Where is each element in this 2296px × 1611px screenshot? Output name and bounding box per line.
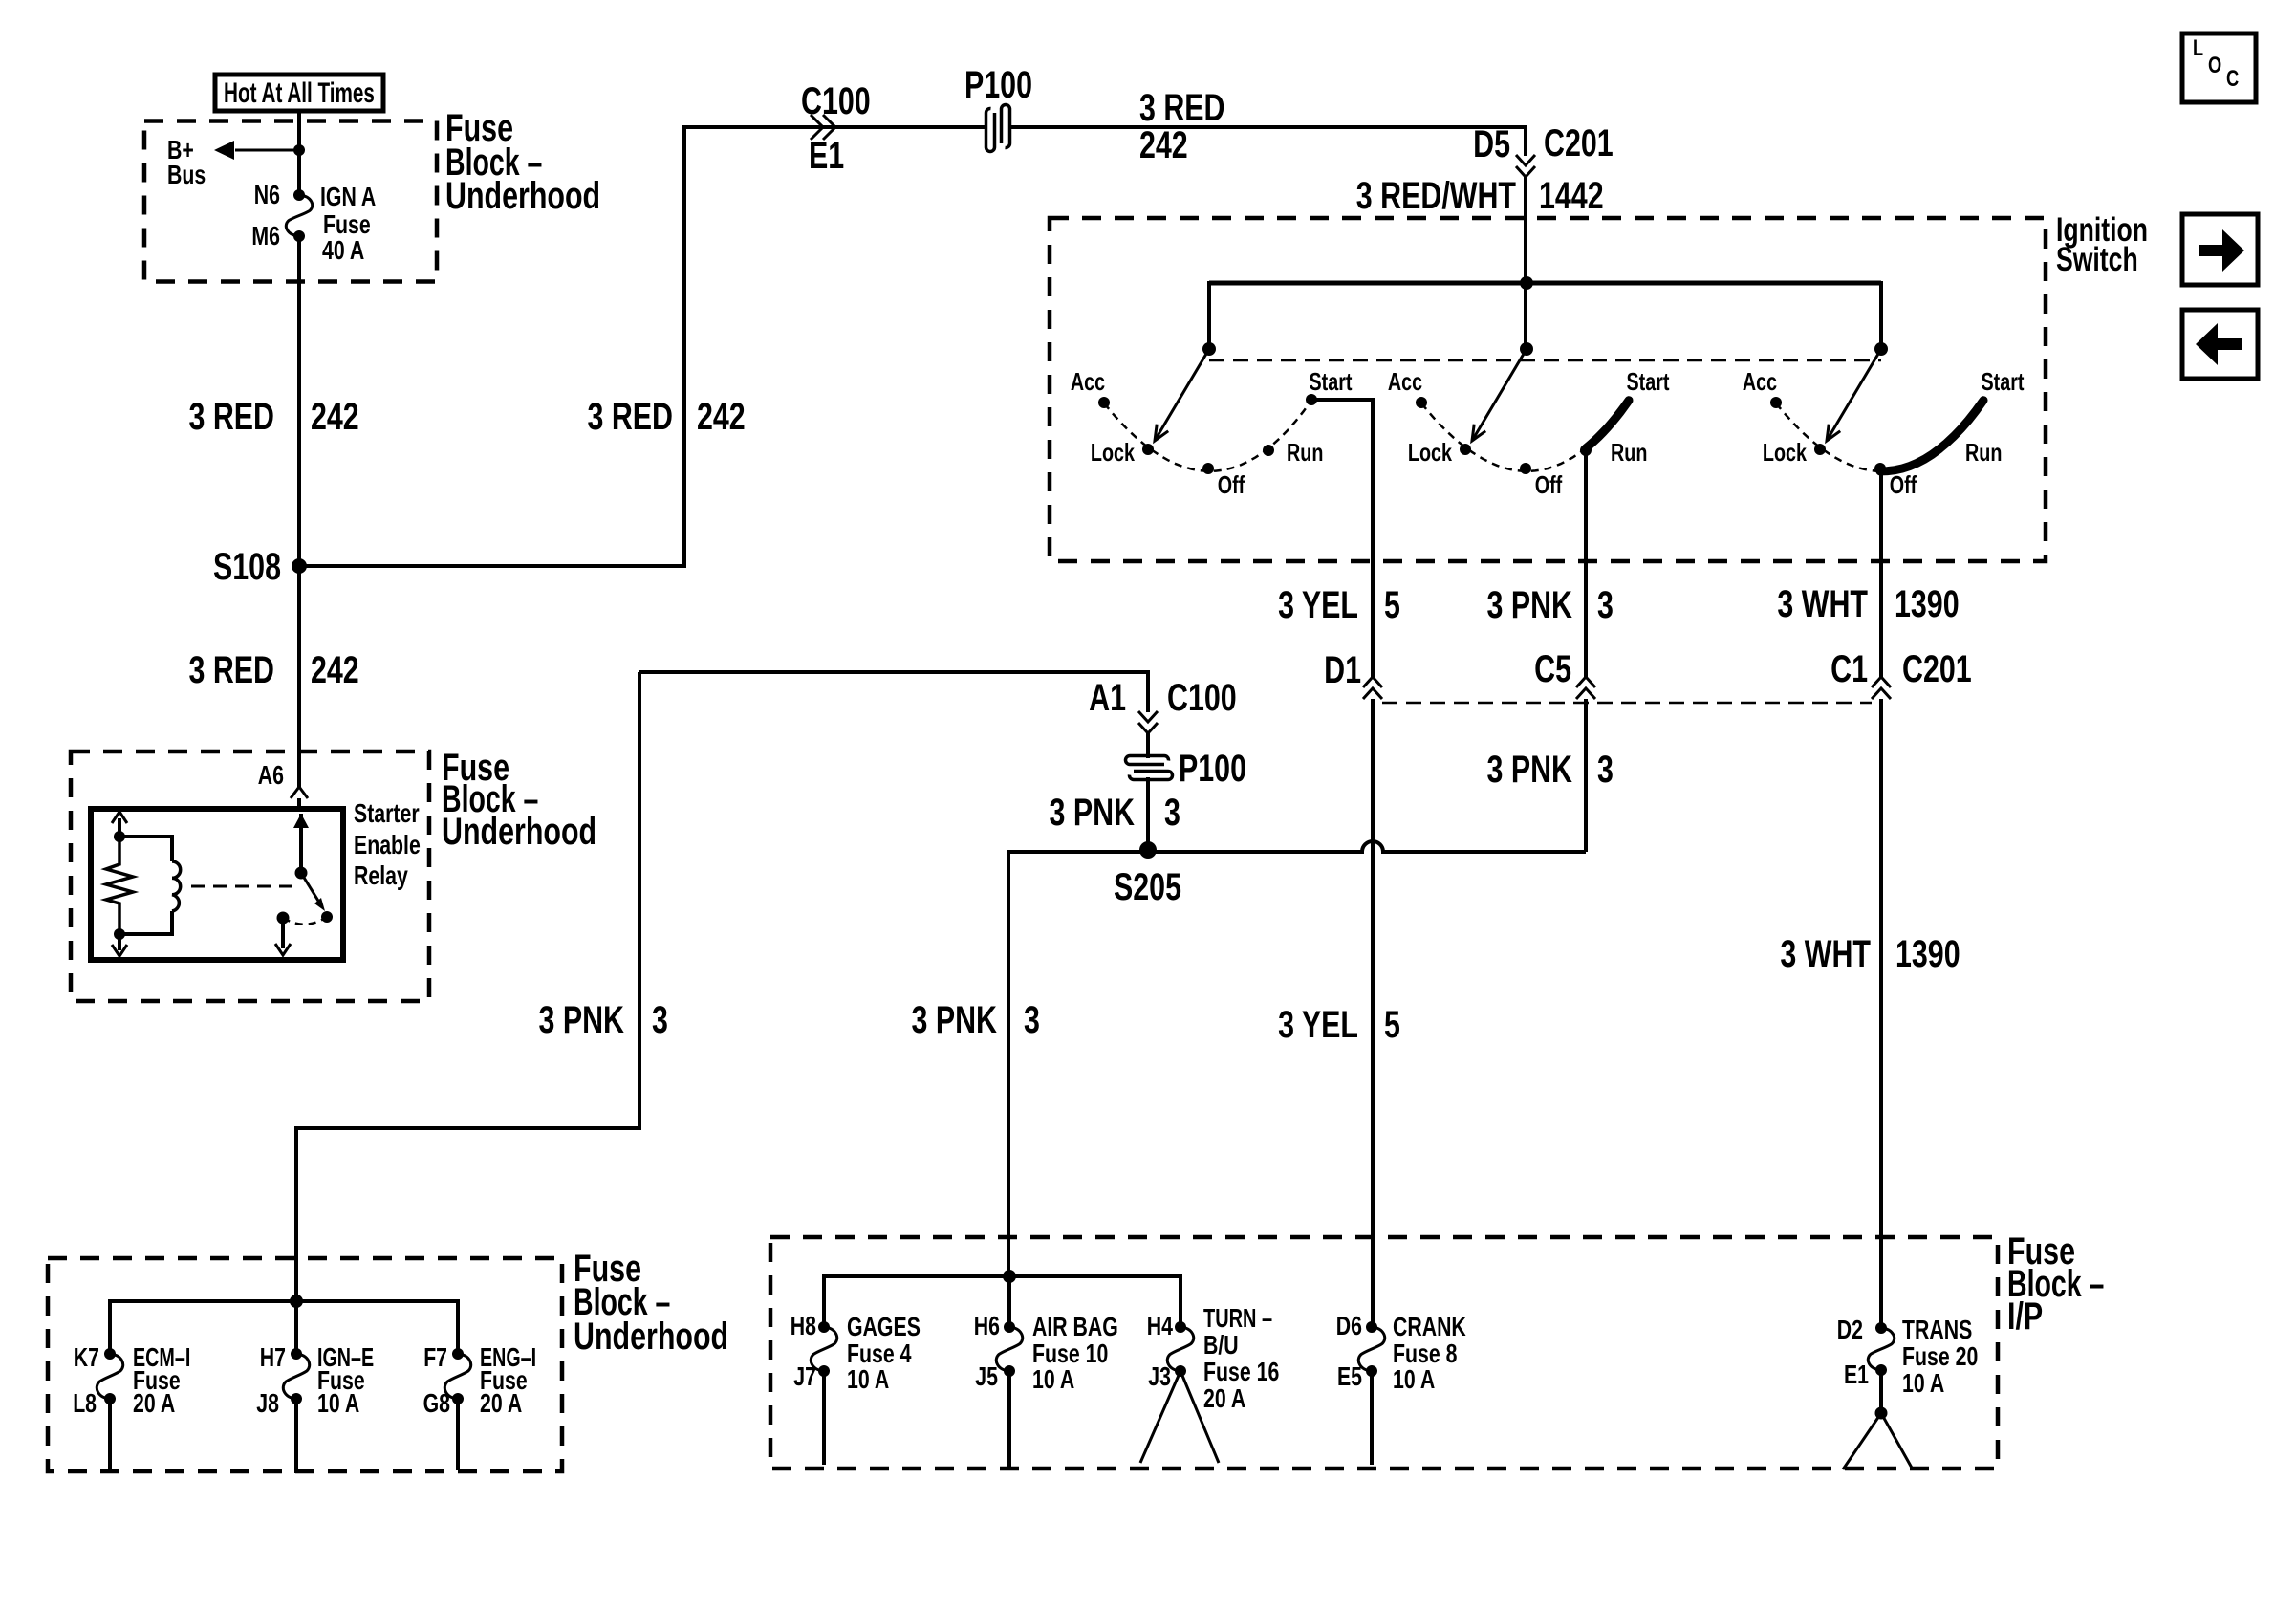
svg-text:H4: H4: [1147, 1311, 1174, 1340]
ignition switch section 1 (wiper): [1098, 342, 1317, 474]
pin D2 label: [1837, 1315, 1863, 1344]
fuse IGN A value label: [320, 182, 376, 265]
svg-text:3 WHT: 3 WHT: [1777, 583, 1868, 625]
pin G8 label: [423, 1388, 450, 1418]
wire 3 YEL 5 (to D1): [1371, 561, 1375, 677]
svg-text:3 PNK: 3 PNK: [1487, 584, 1573, 626]
svg-text:Start: Start: [1310, 367, 1353, 396]
connector C1 C201: [1830, 648, 1972, 699]
wire label 3 PNK 3 (left branch): [912, 999, 1040, 1041]
svg-text:1390: 1390: [1895, 583, 1960, 625]
svg-text:H7: H7: [260, 1342, 286, 1372]
svg-text:M6: M6: [251, 221, 280, 250]
svg-text:Start: Start: [1982, 367, 2025, 396]
wire section1 Start to D1 drop: [1311, 400, 1373, 561]
connector D1: [1324, 649, 1382, 699]
fuse block I/P dashed box: [770, 1237, 1998, 1469]
wire label 3 YEL 5 (lower): [1278, 1004, 1400, 1046]
svg-text:Start: Start: [1627, 367, 1670, 396]
svg-text:S108: S108: [213, 546, 281, 588]
pin L8 label: [73, 1388, 97, 1418]
svg-text:Enable: Enable: [354, 830, 421, 860]
fuse ENG-I value label: [480, 1342, 536, 1418]
relay output arrow: [275, 918, 291, 955]
svg-text:10 A: 10 A: [1032, 1364, 1074, 1394]
pin A6 connector: [258, 760, 308, 798]
relay coil-switch dashed link: [191, 885, 292, 888]
ignition switch section 2 (wiper): [1416, 342, 1629, 474]
fuse block underhood (relay) dashed box: [71, 751, 429, 1001]
svg-text:CRANK: CRANK: [1393, 1312, 1466, 1341]
svg-text:Off: Off: [1218, 470, 1245, 499]
pin H8 label: [791, 1311, 816, 1340]
pin J8 label: [256, 1388, 279, 1418]
wire 3 RED 242 (fuse to S108): [297, 236, 301, 566]
svg-text:I/P: I/P: [2007, 1295, 2043, 1338]
svg-text:Fuse 20: Fuse 20: [1902, 1341, 1978, 1371]
svg-text:D5: D5: [1473, 123, 1510, 165]
fuse IGN-E value label: [317, 1342, 374, 1418]
svg-text:3 RED: 3 RED: [189, 649, 275, 691]
svg-text:H6: H6: [974, 1311, 1000, 1340]
relay resistor: [106, 831, 133, 940]
svg-text:Acc: Acc: [1071, 367, 1105, 396]
svg-text:C: C: [2226, 66, 2239, 92]
svg-text:Acc: Acc: [1743, 367, 1777, 396]
svg-text:J8: J8: [256, 1388, 279, 1418]
wire label 3 RED 242 (lower): [189, 649, 359, 691]
fuse TRANS value label: [1902, 1315, 1978, 1398]
wire below GAGES fuse: [822, 1371, 826, 1465]
svg-text:D1: D1: [1324, 649, 1361, 691]
relay coil terminal (top arrow): [112, 812, 127, 837]
svg-text:J3: J3: [1148, 1361, 1171, 1391]
fuse IGN-E 10A: [283, 1348, 309, 1404]
wire 3 PNK 3 (to C5): [1584, 561, 1588, 677]
svg-text:1390: 1390: [1895, 933, 1960, 975]
I/P fuse bus: [824, 1270, 1180, 1327]
svg-text:Acc: Acc: [1388, 367, 1422, 396]
pin H6 label: [974, 1311, 1000, 1340]
svg-text:10 A: 10 A: [1902, 1368, 1944, 1398]
ignition switch section 3 (wiper): [1770, 342, 1983, 474]
relay switch wiper arm: [301, 873, 325, 911]
svg-text:3 YEL: 3 YEL: [1278, 1004, 1358, 1046]
fuse ECM-I 20A: [97, 1348, 122, 1404]
svg-text:C201: C201: [1902, 648, 1972, 690]
connector C201 dashed line: [1382, 702, 1872, 705]
pin J7 label: [793, 1361, 816, 1391]
wire below IGN-E fuse: [294, 1399, 298, 1473]
svg-text:10 A: 10 A: [317, 1388, 359, 1418]
svg-text:TRANS: TRANS: [1902, 1315, 1972, 1344]
pin H7 label: [260, 1342, 286, 1372]
wire label 3 PNK 3 (at S205): [1050, 792, 1180, 834]
ignition switch label: [2056, 211, 2148, 278]
svg-text:Run: Run: [1287, 438, 1323, 467]
fuse block underhood (relay) label: [442, 747, 596, 853]
svg-text:Run: Run: [1611, 438, 1647, 467]
wire 3 WHT 1390 (to C1): [1879, 561, 1883, 677]
wire 3 RED 242 (S108 to A6): [297, 566, 301, 787]
node B+ bus tap: [167, 135, 305, 189]
section 3 position labels: [1743, 367, 2025, 499]
wire 3 WHT 1390 (C1 to TRANS D2): [1879, 699, 1883, 1328]
wire label 3 RED 242 (right riser): [588, 396, 746, 438]
svg-text:Relay: Relay: [354, 860, 408, 890]
connector C5: [1534, 648, 1595, 699]
wire 3 YEL 5 (D1 to CRANK D6): [1371, 699, 1375, 1327]
label box Hot At All Times: [215, 75, 383, 111]
pin N6 label: [254, 180, 280, 209]
svg-text:Hot At All Times: Hot At All Times: [224, 77, 375, 109]
grommet P100 (lower): [1126, 748, 1247, 790]
svg-text:3: 3: [1597, 584, 1614, 626]
svg-text:3: 3: [1597, 749, 1614, 791]
wire below CRANK fuse: [1370, 1371, 1374, 1465]
svg-text:C5: C5: [1534, 648, 1571, 690]
svg-text:3 RED: 3 RED: [588, 396, 674, 438]
pin H4 label: [1147, 1311, 1174, 1340]
fuse CRANK value label: [1393, 1312, 1466, 1394]
nav box arrow left: [2182, 310, 2258, 379]
off-page arrow below TURN fuse: [1140, 1371, 1219, 1463]
wire below AIR BAG fuse: [1007, 1371, 1011, 1469]
connector C100 E1: [801, 80, 871, 177]
svg-text:S205: S205: [1114, 866, 1181, 908]
fuse block underhood (bottom) label: [574, 1248, 728, 1358]
fuse block I/P label: [2007, 1230, 2104, 1338]
svg-text:J5: J5: [975, 1361, 998, 1391]
svg-text:242: 242: [697, 396, 746, 438]
fuse TRANS 10A: [1868, 1322, 1894, 1376]
svg-text:242: 242: [311, 396, 359, 438]
svg-text:Off: Off: [1890, 470, 1917, 499]
wire bus center drop: [1524, 283, 1527, 349]
svg-text:Off: Off: [1535, 470, 1563, 499]
svg-text:D2: D2: [1837, 1315, 1863, 1344]
svg-text:L8: L8: [73, 1388, 97, 1418]
wire below ECM-I fuse: [108, 1399, 112, 1470]
wire label 3 RED 242 (upper): [189, 396, 359, 438]
wire label 3 WHT 1390 (lower): [1780, 933, 1960, 975]
grommet P100 (top): [964, 64, 1032, 151]
svg-text:242: 242: [311, 649, 359, 691]
fuse block underhood label: [445, 107, 600, 217]
svg-text:L: L: [2193, 35, 2203, 61]
fuse ECM-I value label: [133, 1342, 190, 1418]
fuse AIR BAG value label: [1032, 1312, 1118, 1394]
svg-text:Underhood: Underhood: [574, 1316, 728, 1358]
svg-text:3 PNK: 3 PNK: [912, 999, 998, 1041]
pin J3 label: [1148, 1361, 1171, 1391]
svg-text:Underhood: Underhood: [442, 811, 596, 853]
svg-text:IGN A: IGN A: [320, 182, 376, 211]
LOC reference box: [2182, 33, 2256, 102]
svg-text:20 A: 20 A: [480, 1388, 522, 1418]
svg-text:AIR BAG: AIR BAG: [1032, 1312, 1118, 1341]
svg-text:A6: A6: [258, 760, 284, 790]
fuse block underhood (bottom) dashed box: [48, 1258, 562, 1471]
relay contact: [277, 911, 334, 925]
wire A6 into relay: [297, 798, 301, 812]
svg-text:Fuse 16: Fuse 16: [1203, 1357, 1279, 1386]
svg-text:Underhood: Underhood: [445, 175, 600, 217]
pin E1 label: [1844, 1360, 1869, 1389]
relay contact dashed arc: [283, 917, 327, 925]
svg-text:Bus: Bus: [167, 160, 206, 189]
wire section3 Off drop: [1879, 468, 1883, 561]
node S108: [213, 546, 307, 588]
pin J5 label: [975, 1361, 998, 1391]
wire label 3 PNK 3 (far left): [539, 999, 668, 1041]
svg-text:1442: 1442: [1539, 175, 1604, 217]
svg-text:B/U: B/U: [1203, 1330, 1239, 1360]
wire S108 to C100 (up and right): [299, 127, 986, 566]
section 2 position labels: [1388, 367, 1670, 499]
wire label 3 RED/WHT 1442: [1356, 175, 1604, 217]
svg-text:P100: P100: [964, 64, 1032, 106]
svg-text:5: 5: [1384, 584, 1400, 626]
ignition feed bus: [1209, 276, 1881, 290]
svg-text:3: 3: [1024, 999, 1040, 1041]
wire A1 branch (horizontal): [639, 672, 1148, 712]
svg-text:E5: E5: [1337, 1361, 1362, 1391]
svg-text:Switch: Switch: [2056, 241, 2138, 278]
fuse CRANK 10A: [1358, 1321, 1384, 1377]
pin M6 label: [251, 221, 280, 250]
svg-text:3 RED: 3 RED: [189, 396, 275, 438]
fuse block underhood (top) dashed box: [144, 121, 437, 282]
nav box arrow right: [2182, 214, 2258, 285]
svg-text:C201: C201: [1544, 122, 1614, 164]
svg-text:Lock: Lock: [1091, 438, 1136, 467]
svg-text:3: 3: [652, 999, 668, 1041]
svg-text:20 A: 20 A: [133, 1388, 175, 1418]
wire label 3 WHT 1390 (upper): [1777, 583, 1959, 625]
svg-text:3 RED/WHT: 3 RED/WHT: [1356, 175, 1516, 217]
wire bus right drop: [1879, 281, 1883, 349]
svg-text:3 YEL: 3 YEL: [1278, 584, 1358, 626]
svg-text:O: O: [2208, 53, 2221, 78]
svg-text:E1: E1: [1844, 1360, 1869, 1389]
svg-text:J7: J7: [793, 1361, 816, 1391]
wire section2 Run drop: [1584, 450, 1588, 561]
wire S205 left branch: [1008, 852, 1148, 1327]
svg-text:40 A: 40 A: [322, 235, 364, 265]
pin F7 label: [423, 1342, 447, 1372]
svg-text:A1: A1: [1089, 677, 1126, 719]
relay switch common: [293, 814, 309, 880]
svg-text:Lock: Lock: [1408, 438, 1453, 467]
wire label 3 PNK 3 (above C5): [1487, 584, 1614, 626]
wire A1 to P100: [1146, 731, 1150, 758]
starter enable relay label: [354, 798, 421, 890]
svg-text:E1: E1: [809, 135, 844, 177]
pin D6 label: [1336, 1311, 1362, 1340]
svg-text:5: 5: [1384, 1004, 1400, 1046]
svg-text:3 WHT: 3 WHT: [1780, 933, 1871, 975]
fuse GAGES 10A: [811, 1321, 836, 1377]
section 1 position labels: [1071, 367, 1353, 499]
svg-text:K7: K7: [74, 1342, 99, 1372]
fuse IGN A 40A: [286, 189, 312, 242]
fuse GAGES value label: [847, 1312, 921, 1394]
svg-text:H8: H8: [791, 1311, 816, 1340]
svg-text:N6: N6: [254, 180, 280, 209]
svg-text:10 A: 10 A: [847, 1364, 889, 1394]
svg-text:GAGES: GAGES: [847, 1312, 921, 1341]
svg-text:3 PNK: 3 PNK: [539, 999, 625, 1041]
svg-text:C100: C100: [801, 80, 871, 122]
wiper gang dashed link: [1209, 359, 1881, 362]
fuse ENG-I 20A: [444, 1348, 470, 1404]
svg-text:D6: D6: [1336, 1311, 1362, 1340]
off-page arrow below TRANS fuse: [1843, 1370, 1913, 1469]
fuse TURN-B/U 20A: [1167, 1321, 1193, 1377]
wire bus left drop: [1207, 281, 1211, 349]
svg-text:3 RED: 3 RED: [1139, 87, 1225, 129]
svg-text:C100: C100: [1167, 677, 1237, 719]
fuse TURN-B/U value label: [1203, 1303, 1279, 1413]
wire P100 to C201: [1009, 125, 1526, 156]
node S205: [1114, 841, 1181, 908]
underhood fuse bus: [110, 1295, 458, 1354]
wire 3 PNK 3 (C5 to S205): [1154, 699, 1586, 852]
ignition switch dashed box: [1050, 218, 2046, 561]
connector D5 C201: [1473, 122, 1614, 177]
pin K7 label: [74, 1342, 99, 1372]
svg-text:3 PNK: 3 PNK: [1487, 749, 1573, 791]
connector A1 C100: [1089, 677, 1237, 733]
relay coil: [119, 837, 181, 934]
wire P100 to S205: [1146, 777, 1150, 850]
pin E5 label: [1337, 1361, 1362, 1391]
fuse AIR BAG 10A: [996, 1321, 1022, 1377]
svg-text:TURN –: TURN –: [1203, 1303, 1272, 1333]
wire label 3 YEL 5 (upper): [1278, 584, 1400, 626]
wire 3 PNK 3 (to underhood fuses): [296, 672, 639, 1301]
wire below ENG-I fuse: [456, 1399, 460, 1470]
svg-text:Lock: Lock: [1763, 438, 1808, 467]
svg-text:Run: Run: [1965, 438, 2002, 467]
svg-text:242: 242: [1139, 124, 1188, 166]
svg-text:G8: G8: [423, 1388, 450, 1418]
starter enable relay box: [91, 809, 343, 960]
svg-text:F7: F7: [423, 1342, 447, 1372]
wire label 3 PNK 3 (below C5): [1487, 749, 1614, 791]
wire label 3 RED 242 (top): [1139, 87, 1225, 166]
svg-text:3: 3: [1164, 792, 1180, 834]
relay coil terminal (bottom arrow): [112, 934, 127, 956]
svg-text:3 PNK: 3 PNK: [1050, 792, 1136, 834]
svg-text:20 A: 20 A: [1203, 1383, 1245, 1413]
svg-text:P100: P100: [1179, 748, 1246, 790]
svg-text:Starter: Starter: [354, 798, 420, 828]
wire battery feed: [297, 111, 301, 195]
svg-text:C1: C1: [1830, 648, 1868, 690]
svg-text:10 A: 10 A: [1393, 1364, 1435, 1394]
wire C201 to ignition switch: [1524, 177, 1527, 283]
